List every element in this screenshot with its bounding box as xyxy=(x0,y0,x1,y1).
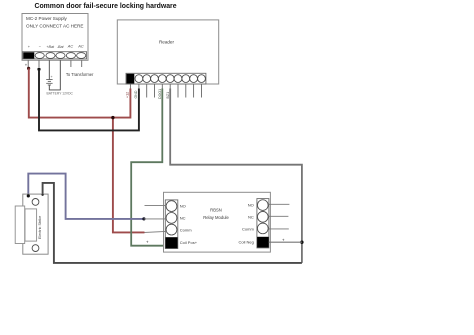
svg-text:NO: NO xyxy=(180,203,186,208)
svg-text:NC: NC xyxy=(248,215,254,220)
battery B1 wiring from +Bat xyxy=(48,60,50,79)
svg-text:Electric Strike: Electric Strike xyxy=(38,216,42,239)
junction dot blue at NC stub xyxy=(142,217,145,220)
terminal + (black lug) xyxy=(23,52,34,58)
terminal AC1 (oval) xyxy=(66,53,75,59)
stub wire relay right Comm xyxy=(268,228,289,230)
relay left NO circle xyxy=(166,201,177,212)
svg-text:-Bat: -Bat xyxy=(57,45,65,49)
label BATTERY 12VDC xyxy=(47,91,74,95)
reader terminal circle 9 xyxy=(198,75,206,83)
svg-text:To Transformer: To Transformer xyxy=(66,72,94,77)
terminal - (oval) xyxy=(35,53,44,59)
reader terminal circle 8 xyxy=(190,75,198,83)
svg-text:Relay Module: Relay Module xyxy=(203,215,229,220)
reader terminal strip xyxy=(126,73,206,84)
svg-text:+Bat: +Bat xyxy=(46,45,55,49)
relay left terminal strip xyxy=(165,200,178,249)
svg-text:BZ1: BZ1 xyxy=(166,92,170,99)
label + at Coil Pos+ wire xyxy=(146,240,149,245)
reader terminal circle 1 GND xyxy=(135,75,143,83)
relay left NC circle xyxy=(166,213,177,224)
stub wire relay right NC xyxy=(268,215,288,217)
relay right terminal strip xyxy=(257,199,269,248)
power supply PS1 box xyxy=(22,14,88,61)
pin - of PS1 xyxy=(38,60,40,67)
junction dot at Coil Neg tap xyxy=(300,241,303,244)
stub wire relay left NO xyxy=(145,205,167,207)
wire dark: electric strike to bottom run xyxy=(43,183,302,263)
svg-text:RBSN: RBSN xyxy=(210,208,222,213)
svg-text:NC: NC xyxy=(180,215,186,220)
reader terminal circle 7 xyxy=(182,75,190,83)
label + polarity at PS output xyxy=(25,62,28,67)
reader pin 8 xyxy=(185,84,187,98)
pin AC2 of PS1 xyxy=(81,60,83,67)
reader terminal circle 2 xyxy=(143,75,151,83)
relay right NC circle xyxy=(257,211,268,222)
electric strike ES1 faceplate xyxy=(23,194,48,254)
svg-text:+12: +12 xyxy=(126,92,130,98)
reader terminal circle 6 xyxy=(174,75,182,83)
reader pin 2 (GND) xyxy=(138,84,140,89)
relay left labels xyxy=(180,203,198,245)
label + at Coil Neg wire xyxy=(282,238,285,243)
power supply terminal strip xyxy=(23,52,87,59)
svg-text:AC: AC xyxy=(77,44,84,49)
wire green: reader pin5 down, left, down to relay Coil Pos+ xyxy=(131,89,165,246)
label To Transformer xyxy=(66,72,94,77)
terminal +Bat (oval) xyxy=(46,53,55,59)
electric strike terminal dot black xyxy=(41,194,43,196)
reader pin 3 xyxy=(146,84,148,98)
svg-text:+: + xyxy=(146,240,149,245)
svg-text:BATTERY 12VDC: BATTERY 12VDC xyxy=(47,91,74,95)
reader pin 6 xyxy=(169,84,171,89)
reader pin 10 xyxy=(201,84,203,98)
svg-text:+: + xyxy=(51,75,53,79)
reader terminal circle 3 xyxy=(151,75,159,83)
electric strike bottom hole xyxy=(32,245,39,252)
pin + of PS1 xyxy=(27,60,29,67)
pin label GND xyxy=(134,90,138,98)
svg-text:Reader: Reader xyxy=(159,39,175,44)
wire red +12: PS + terminal down, across, up to reader pin1, and down to relay Comm xyxy=(27,67,145,233)
electric strike latch rect xyxy=(25,209,37,241)
reader terminal circle 4 xyxy=(158,75,166,83)
relay right Comm circle xyxy=(257,223,268,234)
reader pin 1 (+12) xyxy=(129,84,131,89)
wire black GND: PS - terminal down, across, up to reader pin2 xyxy=(37,68,138,131)
pin label +12 xyxy=(126,92,130,98)
svg-text:Coil Neg: Coil Neg xyxy=(238,239,253,244)
svg-text:ONLY CONNECT AC HERE: ONLY CONNECT AC HERE xyxy=(26,24,83,29)
wire grey: reader pin6 down, right, down to strike bottom wire xyxy=(170,89,302,263)
svg-text:GND: GND xyxy=(134,90,138,98)
stub wire relay Coil Neg to junction xyxy=(269,241,302,243)
reader pin 7 xyxy=(177,84,179,98)
relay left Comm circle xyxy=(166,224,177,235)
relay right NO circle xyxy=(257,200,268,211)
reader terminal +12 (black lug) xyxy=(127,74,135,84)
reader pin 5 (door) xyxy=(161,84,163,89)
terminal AC2 (oval) xyxy=(77,53,86,59)
electric strike label xyxy=(38,216,42,239)
battery B1 symbol xyxy=(46,75,52,85)
wire battery negative to -Bat terminal xyxy=(49,60,60,90)
stub wire relay right NO xyxy=(268,203,289,205)
wire blue: electric strike to relay NC xyxy=(28,174,144,219)
electric strike terminal dot blue xyxy=(27,194,30,197)
svg-text:DOO1: DOO1 xyxy=(158,89,162,99)
svg-text:Comm: Comm xyxy=(242,227,254,232)
stub wire relay left Comm xyxy=(145,231,167,232)
stub wire relay left NC xyxy=(144,218,167,220)
relay right Coil Neg black lug xyxy=(257,237,269,248)
pin label BZ1 xyxy=(166,92,170,99)
reader pin 9 xyxy=(193,84,195,98)
reader U1 box xyxy=(117,20,218,84)
pin label DOO1 xyxy=(158,89,162,99)
junction dot red xyxy=(111,116,114,119)
svg-text:AC: AC xyxy=(67,44,74,49)
relay module K1 box xyxy=(164,192,271,252)
power supply terminal labels xyxy=(28,44,84,50)
relay left Coil Pos black lug xyxy=(166,237,178,248)
reader terminal circle 5 xyxy=(166,75,174,83)
relay right labels xyxy=(238,202,254,244)
svg-text:Comm: Comm xyxy=(180,227,192,232)
terminal -Bat (oval) xyxy=(56,53,65,59)
electric strike keeper box xyxy=(15,206,25,244)
pin AC1 of PS1 xyxy=(70,60,72,67)
electric strike top hole xyxy=(32,199,39,206)
svg-text:Common door fail-secure lockin: Common door fail-secure locking hardware xyxy=(35,3,177,10)
reader pin 4 xyxy=(154,84,156,98)
svg-text:Coil Pos+: Coil Pos+ xyxy=(180,240,198,245)
svg-text:NO: NO xyxy=(248,202,254,207)
svg-text:MC-2 Power Supply: MC-2 Power Supply xyxy=(26,16,68,21)
